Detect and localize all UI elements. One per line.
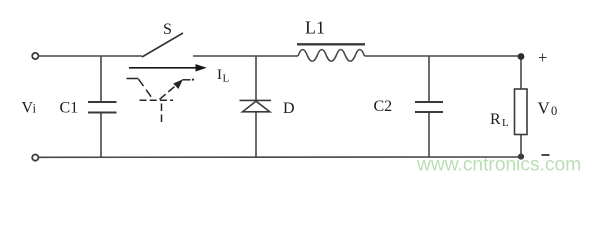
svg-text:C1: C1 [60, 100, 79, 117]
svg-text:V: V [538, 99, 551, 118]
resistor RL [515, 89, 528, 135]
label Vi [22, 100, 37, 117]
svg-text:S: S [163, 21, 172, 38]
wire C2 branch [428, 56, 430, 157]
wire top: switch to inductor L1 [193, 55, 298, 57]
inductor L1 core bar [297, 43, 365, 45]
svg-text:L1: L1 [305, 18, 325, 38]
label RL [490, 111, 509, 129]
node junction output top [518, 53, 525, 60]
wire bottom rail [39, 156, 521, 158]
input terminal bottom (Vi -) [32, 155, 38, 161]
label IL [217, 67, 230, 85]
current arrow IL [129, 64, 207, 71]
diode D [240, 100, 272, 111]
svg-text:C2: C2 [374, 98, 393, 115]
inductor L1 winding [298, 50, 365, 62]
wire top: inductor L1 to output node [365, 55, 522, 57]
label - output polarity [542, 154, 550, 156]
capacitor C2 [415, 102, 443, 112]
wire top: input terminal to switch [39, 55, 142, 57]
node junction output bottom [518, 154, 524, 160]
label Vo [538, 99, 558, 118]
wire load RL branch [520, 56, 522, 157]
svg-text:R: R [490, 111, 501, 128]
svg-text:0: 0 [551, 104, 557, 118]
transistor Q1 (dashed, implements switch S) [127, 79, 195, 125]
svg-text:I: I [217, 67, 222, 83]
svg-text:i: i [33, 101, 37, 116]
svg-text:L: L [502, 117, 509, 129]
svg-text:L: L [223, 73, 230, 85]
svg-text:D: D [283, 100, 295, 117]
input terminal top (Vi +) [32, 53, 38, 59]
capacitor C1 [88, 102, 117, 113]
wire diode D branch [255, 56, 257, 157]
svg-text:+: + [538, 48, 547, 67]
wire C1 branch [100, 56, 102, 157]
switch S blade [142, 33, 183, 57]
